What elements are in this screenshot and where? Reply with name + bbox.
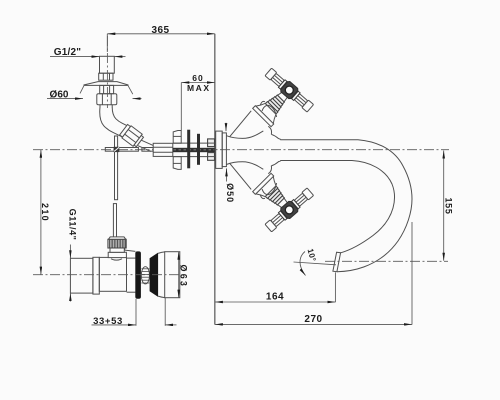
dim Ø60 xyxy=(47,86,142,101)
faucet wall flange Ø50 xyxy=(222,133,226,167)
vertical pipe to stop valve (upper segment) xyxy=(115,136,118,200)
svg-text:MAX: MAX xyxy=(187,83,211,93)
wall line xyxy=(214,34,216,325)
inlet pipe below nuts xyxy=(100,105,112,107)
dim 270 xyxy=(215,222,412,325)
lower handle assembly U2 xyxy=(253,173,315,233)
union body on supply axis xyxy=(153,143,173,156)
tee junction pipe horizontal left xyxy=(105,148,138,152)
centerline supply (horizontal main axis) xyxy=(33,149,449,151)
svg-text:210: 210 xyxy=(40,203,50,222)
inlet nut 1 xyxy=(100,85,114,93)
stop valve knob lower cap xyxy=(110,248,124,252)
faucet body lower contour right of bonnet xyxy=(271,161,280,166)
spout tube inner edge and U-bend xyxy=(280,161,394,253)
G1/2 inlet pipe xyxy=(100,56,115,73)
svg-text:155: 155 xyxy=(443,197,453,214)
upper handle assembly U1 xyxy=(253,67,315,127)
mounting plate 2 (thin) xyxy=(197,134,200,165)
escutcheon black cone xyxy=(150,253,159,297)
vertical pipe to stop valve (lower segment) xyxy=(113,204,116,237)
upper bonnet rim scallop xyxy=(268,126,271,134)
wall locknut upper xyxy=(208,139,215,147)
supply pipe outline at wall xyxy=(173,143,208,157)
escutcheon bell cylinder Ø63 xyxy=(165,252,180,298)
collar between valve and escutcheon xyxy=(125,248,136,292)
inlet flange Ø60 xyxy=(84,82,128,86)
inlet hex section xyxy=(99,73,113,80)
wall bracket lower tab xyxy=(173,157,181,170)
svg-text:270: 270 xyxy=(304,314,322,325)
lower bonnet rim scallop xyxy=(268,166,271,174)
dim G1 1/4" xyxy=(67,209,77,302)
centerline valve (lower-left axis) xyxy=(33,274,182,276)
faucet wall plate 1 xyxy=(216,131,223,168)
threaded rod (dark) xyxy=(173,148,215,152)
mounting plate 1 (thin) xyxy=(187,130,190,169)
upper bonnet silhouette line xyxy=(230,111,251,137)
dim 33+53 xyxy=(92,298,177,327)
escutcheon black ring 1 xyxy=(135,251,141,298)
wall locknut lower xyxy=(208,153,215,161)
dim 155 xyxy=(443,151,453,261)
svg-text:164: 164 xyxy=(266,292,284,303)
svg-text:365: 365 xyxy=(152,25,170,36)
union nut on angled pipe xyxy=(119,124,144,148)
lower bonnet silhouette line xyxy=(230,163,251,189)
faucet body upper contour xyxy=(226,131,263,139)
faucet body lower contour xyxy=(226,162,263,170)
dim 10 degrees xyxy=(294,248,337,276)
stop valve neck xyxy=(108,252,126,257)
svg-text:Ø63: Ø63 xyxy=(179,264,189,288)
dim 210 xyxy=(40,150,50,275)
escutcheon throat curves xyxy=(158,252,165,254)
stop valve knurled knob xyxy=(108,237,126,248)
svg-text:G11/4": G11/4" xyxy=(67,209,77,241)
tee junction block xyxy=(114,147,120,152)
dim 164 xyxy=(215,272,336,302)
dim Ø50 xyxy=(225,123,235,203)
spout tube outer edge and U-bend xyxy=(280,140,412,272)
centerline inlet vertical xyxy=(106,36,108,108)
stop valve G1 1/4 body xyxy=(70,257,126,294)
spout tip cap xyxy=(333,252,341,272)
wall bracket upper tab xyxy=(173,131,181,144)
svg-text:33+53: 33+53 xyxy=(93,316,123,327)
threaded pipe between rings xyxy=(141,267,149,284)
dim Ø63 xyxy=(179,252,189,298)
dim 365 xyxy=(107,25,215,52)
elbow xyxy=(100,107,128,137)
faucet body upper contour right of bonnet xyxy=(271,134,280,139)
inlet nut 2 xyxy=(97,94,117,105)
angled pipe to union body xyxy=(138,140,155,151)
svg-text:Ø50: Ø50 xyxy=(225,183,235,203)
dim 60 MAX xyxy=(181,73,215,130)
centerline spout outlet xyxy=(325,260,448,262)
tee junction pipe horizontal right xyxy=(142,148,153,152)
dim G1/2" xyxy=(50,47,126,58)
svg-text:60: 60 xyxy=(192,73,203,83)
